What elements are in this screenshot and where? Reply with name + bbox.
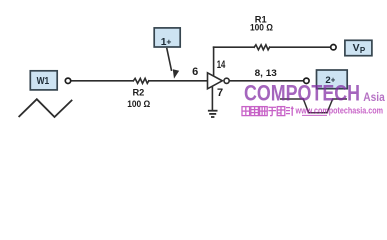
svg-text:V: V	[353, 43, 360, 54]
svg-text:R2: R2	[132, 88, 144, 98]
svg-text:COMPOTECH: COMPOTECH	[244, 81, 360, 106]
svg-text:P: P	[360, 46, 366, 55]
svg-text:6: 6	[192, 66, 198, 78]
svg-text:100 Ω: 100 Ω	[127, 99, 150, 109]
svg-text:Asia: Asia	[363, 90, 385, 104]
svg-text:100 Ω: 100 Ω	[250, 22, 273, 32]
svg-text:8, 13: 8, 13	[255, 68, 277, 79]
svg-text:14: 14	[217, 59, 226, 71]
svg-text:7: 7	[217, 87, 223, 99]
svg-text:W1: W1	[37, 76, 50, 87]
svg-text:1+: 1+	[161, 36, 172, 48]
